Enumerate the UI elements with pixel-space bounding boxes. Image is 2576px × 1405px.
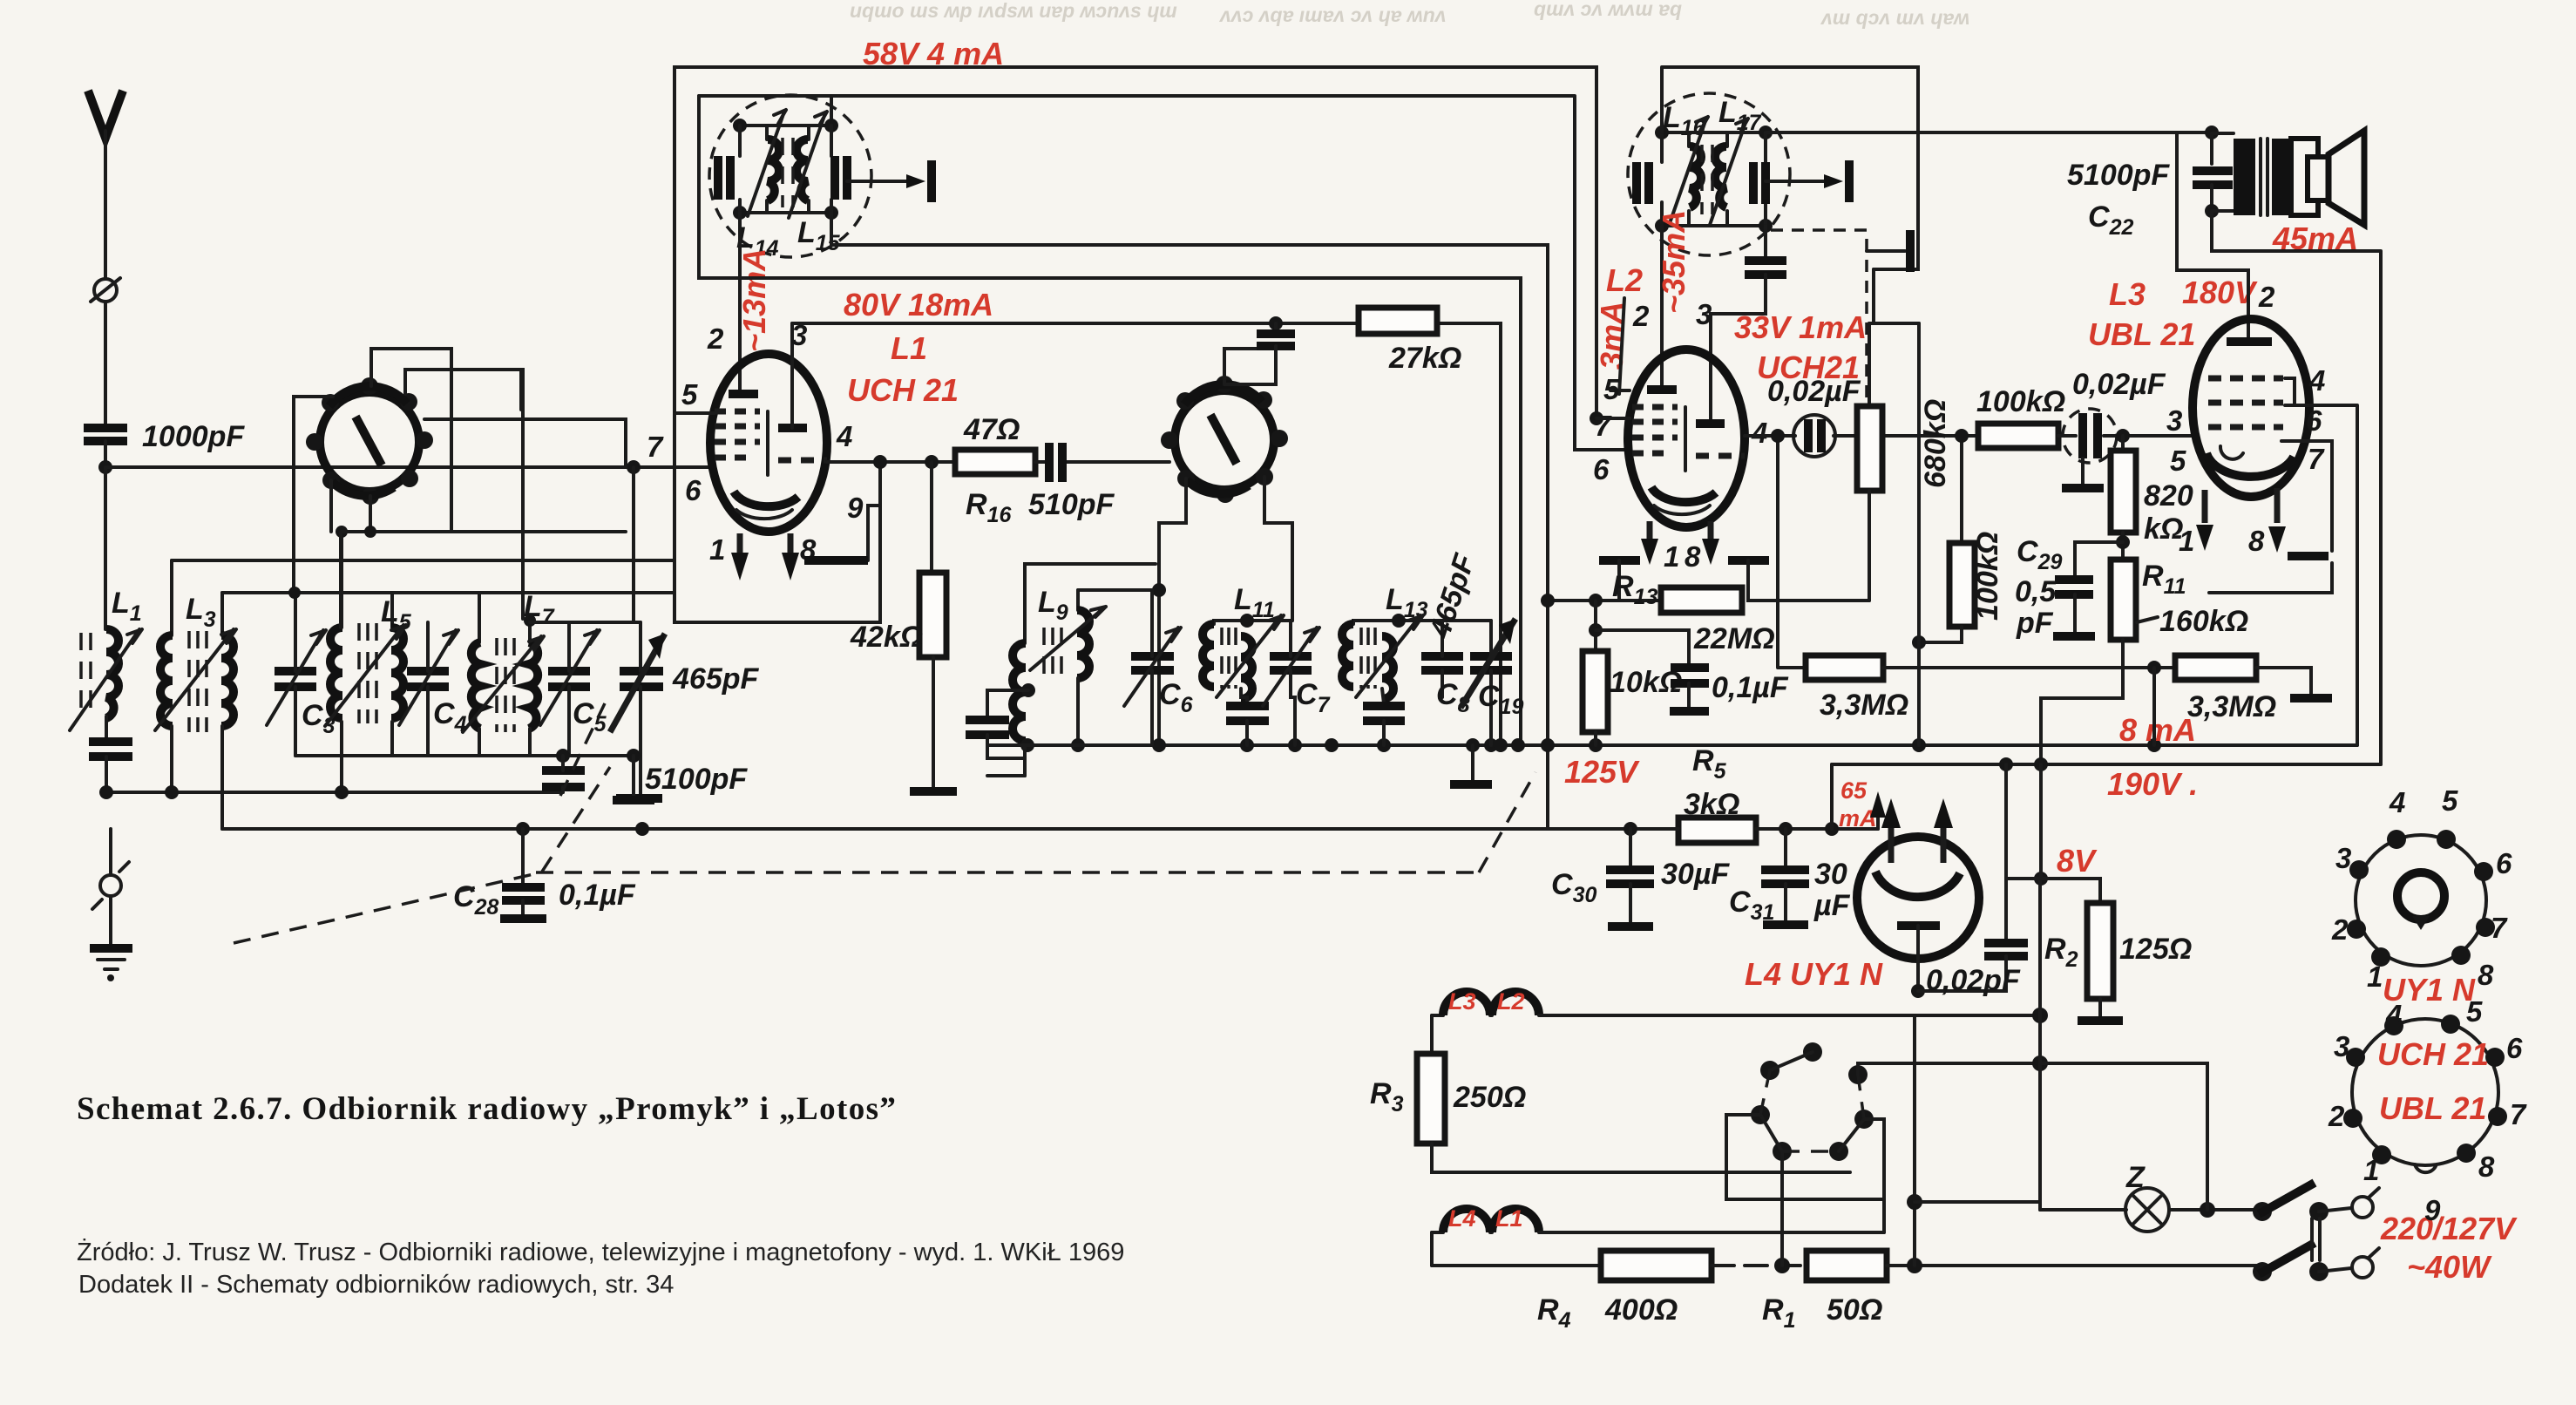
pin labels tube L3: [2166, 364, 2325, 557]
capacitor C29 0,5pF: [2015, 535, 2123, 640]
svg-text:ʌɯ qɔʌ ɯʌ ɥɐʍ: ʌɯ qɔʌ ɯʌ ɥɐʍ: [1820, 6, 1969, 29]
svg-text:42kΩ: 42kΩ: [850, 621, 923, 654]
svg-text:30µF: 30µF: [1661, 858, 1730, 891]
capacitor 0,02pF at rectifier: [1918, 764, 2028, 997]
capacitor C8: [1421, 621, 1470, 717]
svg-text:4: 4: [2308, 364, 2325, 397]
resistor R11 160k: [2041, 560, 2248, 764]
svg-text:Żródło: J. Trusz W. Trusz - Od: Żródło: J. Trusz W. Trusz - Odbiorniki r…: [77, 1238, 1124, 1266]
svg-text:kΩ: kΩ: [2144, 512, 2183, 546]
svg-text:Schemat 2.6.7. Odbiornik radio: Schemat 2.6.7. Odbiornik radiowy „Promyk…: [77, 1091, 897, 1127]
svg-text:L3: L3: [2109, 276, 2146, 312]
resistor R1 50ohm: [1762, 1251, 2259, 1333]
svg-text:7: 7: [2491, 912, 2508, 944]
box around L16 assembly: [1662, 67, 1918, 269]
socket diagram UY1N: [2331, 784, 2512, 1008]
antenna terminal: [91, 278, 120, 424]
capacitor C3: [267, 593, 336, 756]
svg-text:UBL 21: UBL 21: [2379, 1090, 2486, 1126]
tuning circle 1 (band switch): [306, 377, 433, 505]
resistor R16 47ohm: [955, 413, 1035, 527]
heater winding L3/L2: [1432, 988, 2040, 1015]
svg-text:3,3MΩ: 3,3MΩ: [2187, 690, 2276, 723]
wire plate pin 2 of L3: [2177, 133, 2248, 340]
svg-text:8: 8: [2478, 1150, 2495, 1183]
pilot lamp Z: [2040, 1063, 2259, 1232]
svg-text:0,1µF: 0,1µF: [559, 879, 636, 912]
tube L1 UCH21: [675, 323, 827, 532]
svg-text:4: 4: [2389, 786, 2405, 818]
svg-text:1: 1: [2179, 525, 2194, 557]
svg-text:4: 4: [2385, 999, 2402, 1031]
svg-text:30: 30: [1814, 858, 1847, 891]
wires tuning circle 1 to coils: [288, 349, 626, 628]
resistor 100k (vertical): [1912, 323, 2004, 745]
resistor R4 400ohm: [1432, 1251, 1807, 1333]
svg-text:5: 5: [2466, 995, 2483, 1028]
capacitor C7: [1263, 621, 1331, 745]
dashed gang line: [234, 703, 1535, 943]
svg-text:27kΩ: 27kΩ: [1388, 342, 1461, 375]
svg-text:2: 2: [2258, 281, 2275, 313]
svg-text:125Ω: 125Ω: [2119, 933, 2192, 966]
resistor 3,3M (first): [1778, 436, 2175, 722]
svg-text:100kΩ: 100kΩ: [1976, 385, 2065, 418]
svg-text:0,02µF: 0,02µF: [1767, 375, 1861, 408]
wire 45mA line: [2212, 211, 2381, 764]
wire antenna to L1 coil: [104, 467, 107, 629]
capacitor C28: [453, 829, 636, 920]
capacitor under L1: [89, 742, 132, 792]
capacitor 1000pF: [84, 420, 245, 467]
svg-text:1: 1: [2367, 960, 2383, 993]
svg-text:4: 4: [1751, 417, 1767, 449]
wire L7/C5/465 top link: [530, 467, 641, 622]
ground symbol: [90, 948, 132, 981]
inductor L3: [155, 560, 236, 829]
svg-text:33V 1mA: 33V 1mA: [1734, 309, 1867, 345]
svg-text:5100pF: 5100pF: [645, 763, 748, 796]
svg-text:pF: pF: [2016, 607, 2054, 640]
earth terminal: [92, 829, 129, 947]
wire L14 secondary to tube grid pin2: [738, 213, 742, 394]
svg-text:5: 5: [681, 378, 698, 411]
wire top of L16 to speaker line: [1766, 131, 2212, 134]
svg-text:5100pF: 5100pF: [2067, 159, 2170, 192]
svg-text:2: 2: [2328, 1100, 2345, 1132]
svg-text:~40W: ~40W: [2407, 1249, 2492, 1285]
red 8V and resistor R2: [2034, 764, 2192, 1021]
capacitor C5: [540, 622, 607, 756]
svg-text:4: 4: [836, 420, 852, 452]
inductor L1: [70, 587, 142, 738]
svg-text:400Ω: 400Ω: [1604, 1293, 1678, 1327]
capacitor 5100pF: [542, 756, 748, 796]
ground stub right of 5100pF: [613, 756, 654, 800]
svg-text:7: 7: [2510, 1098, 2527, 1130]
svg-text:190V .: 190V .: [2107, 766, 2198, 802]
svg-text:8: 8: [1685, 540, 1701, 573]
svg-text:3: 3: [1696, 298, 1712, 330]
svg-text:1: 1: [709, 533, 725, 566]
svg-text:9: 9: [847, 492, 864, 524]
svg-text:0,02µF: 0,02µF: [2072, 368, 2166, 401]
pin 6 wire to 8mA line: [2285, 405, 2357, 745]
vertical feeds right of switch: [1907, 879, 2048, 1266]
svg-text:~13mA: ~13mA: [736, 248, 772, 352]
svg-text:47Ω: 47Ω: [963, 413, 1020, 446]
wire L3 top links: [172, 560, 673, 593]
svg-text:L4 UY1 N: L4 UY1 N: [1745, 956, 1883, 992]
inductor L11: [1203, 583, 1292, 745]
svg-text:3: 3: [2335, 842, 2351, 874]
inductor L7: [463, 590, 555, 756]
svg-text:8V: 8V: [2057, 843, 2098, 879]
svg-text:6: 6: [2496, 847, 2512, 879]
svg-text:L2: L2: [1606, 262, 1643, 298]
svg-text:680kΩ: 680kΩ: [1919, 399, 1952, 488]
IF transformer L16/L17 dashed circle: [1628, 93, 1790, 255]
wire 58V top line: [675, 67, 1596, 438]
trimmer capacitor in circle (to 680k): [1745, 375, 1978, 457]
svg-text:6: 6: [685, 474, 702, 506]
svg-text:220/127V: 220/127V: [2380, 1211, 2518, 1246]
wire 5100pF row: [295, 749, 641, 763]
wire second top line: [699, 96, 1630, 450]
svg-text:L3: L3: [1448, 988, 1476, 1015]
voltage selector switch: [1726, 1042, 2040, 1266]
loudspeaker: [2308, 131, 2364, 225]
svg-text:465pF: 465pF: [672, 662, 759, 696]
tuning circle 2 (hexode mixer view): [1161, 376, 1288, 503]
bus ground (lower): [222, 822, 1630, 836]
svg-text:6: 6: [1593, 453, 1610, 485]
resistor 42k: [850, 462, 957, 791]
svg-text:8: 8: [2248, 525, 2265, 557]
grid-cap terminal of L15: [847, 160, 932, 202]
pin labels tube L1: [647, 319, 864, 566]
svg-text:3: 3: [2166, 404, 2182, 437]
heater winding L4/L1: [1432, 1205, 1884, 1266]
red 65 mA with arrow: [1839, 777, 1886, 831]
svg-text:3: 3: [2334, 1030, 2349, 1062]
pin7 junction: [1590, 411, 1603, 425]
svg-text:5: 5: [2170, 445, 2186, 477]
svg-text:160kΩ: 160kΩ: [2159, 605, 2248, 638]
svg-text:22MΩ: 22MΩ: [1693, 622, 1775, 655]
socket diagram UCH21/UBL21: [2328, 995, 2527, 1226]
svg-text:820: 820: [2144, 479, 2193, 512]
svg-text:uqɯo ɯs ʍp ıʌdsʍ uɐp ʍɔnʌs ɥɯ: uqɯo ɯs ʍp ıʌdsʍ uɐp ʍɔnʌs ɥɯ: [850, 0, 1177, 22]
wire to grid pin 7: [105, 465, 710, 469]
pin 4 stub: [2285, 378, 2295, 405]
svg-text:UCH 21: UCH 21: [847, 372, 959, 408]
grid terminal of L17: [1766, 160, 1849, 202]
svg-text:L4: L4: [1448, 1205, 1476, 1232]
svg-text:L1: L1: [1495, 1205, 1523, 1232]
IF transformer L14/L15 dashed circle: [709, 95, 871, 261]
bus AVC (upper): [99, 785, 563, 799]
svg-text:1000pF: 1000pF: [142, 420, 245, 453]
svg-text:100kΩ: 100kΩ: [1971, 532, 2004, 621]
svg-text:0,02pF: 0,02pF: [1926, 964, 2021, 997]
red 27k line (80V feed): [792, 323, 1501, 745]
svg-text:UBL 21: UBL 21: [2088, 316, 2195, 352]
rectifier tube L4 UY1N: [1745, 798, 1979, 998]
svg-text:qɯʌ ɔʌ ʍʌɯ ɐq: qɯʌ ɔʌ ʍʌɯ ɐq: [1534, 0, 1682, 20]
capacitor 0,1uF (AVC): [1596, 630, 1789, 711]
svg-text:L1: L1: [891, 330, 927, 366]
capacitor C30 30uF: [1551, 829, 1730, 926]
svg-text:1: 1: [2363, 1154, 2379, 1186]
svg-text:0,1µF: 0,1µF: [1712, 671, 1789, 704]
IF block: inductor L9: [966, 564, 1166, 776]
wire 33V line: [1869, 269, 1919, 323]
svg-text:Dodatek II - Schematy odbiorni: Dodatek II - Schematy odbiorników radiow…: [78, 1271, 674, 1299]
svg-text:7: 7: [647, 431, 664, 463]
capacitor below L17: [1711, 226, 1786, 424]
antenna: [88, 91, 123, 279]
pin 7 wire and cathode: [2196, 441, 2332, 593]
svg-text:ʌʌɔ ʌqɐ ıɯɐʌ ɔʌ ɥɐ ʍnʌ: ʌʌɔ ʌqɐ ıɯɐʌ ɔʌ ɥɐ ʍnʌ: [1218, 3, 1447, 26]
resistor R5 3k: [1624, 744, 1878, 843]
resistor 820k: [2111, 436, 2193, 560]
svg-text:µF: µF: [1813, 889, 1851, 922]
tube L2 UCH21: [1628, 350, 1745, 527]
resistor 680k: [1857, 323, 1952, 601]
resistor R13: [1541, 570, 1775, 655]
node antenna junction: [98, 460, 112, 474]
svg-text:1: 1: [1664, 540, 1679, 573]
svg-text:58V 4 mA: 58V 4 mA: [863, 36, 1004, 71]
svg-text:2: 2: [1632, 300, 1650, 332]
cathode box under tube L1: [675, 438, 880, 622]
svg-text:5: 5: [1603, 373, 1620, 405]
cathode leads tube L2: [1599, 521, 1869, 601]
svg-text:510pF: 510pF: [1028, 488, 1115, 521]
resistor 100k (horizontal): [1976, 385, 2065, 448]
svg-text:9: 9: [2424, 1194, 2441, 1226]
inductor L13: [1342, 583, 1491, 745]
svg-text:0,5: 0,5: [2015, 575, 2057, 608]
resistor 27k: [1359, 308, 1461, 375]
svg-text:250Ω: 250Ω: [1453, 1081, 1526, 1114]
variable capacitor 465pF (gang): [610, 622, 759, 798]
svg-text:65: 65: [1840, 777, 1868, 804]
wires around circle 2: [699, 213, 1630, 829]
svg-text:125V: 125V: [1564, 754, 1640, 790]
svg-text:7: 7: [2308, 443, 2325, 475]
svg-text:6: 6: [2506, 1032, 2523, 1064]
wire L16 secondary down to pin2: [1660, 226, 1664, 390]
inductor L5: [325, 526, 412, 792]
capacitor 510pF: [1028, 443, 1169, 521]
resistor R3 250ohm: [1370, 1015, 1850, 1172]
grid capacitor below 27k line: [1224, 323, 1295, 384]
svg-text:UCH 21: UCH 21: [2377, 1036, 2489, 1072]
resistor 10k: [1583, 601, 1682, 745]
svg-text:mA: mA: [1839, 805, 1877, 831]
main bus (8mA line): [987, 745, 2357, 776]
svg-text:80V 18mA: 80V 18mA: [844, 287, 993, 322]
190V line: [1832, 763, 2381, 766]
svg-text:6: 6: [2306, 404, 2322, 437]
box around L14 assembly: [699, 96, 831, 278]
resistor 3,3M (second): [2154, 655, 2332, 745]
plate line of L1: [827, 460, 955, 464]
coupling capacitor 0,02uF in dashed circle: [2058, 368, 2193, 488]
vertical from R5 output up to 190V line: [1830, 764, 1834, 829]
tube L3 UBL21: [2193, 319, 2309, 497]
dashed AVC feedback path: [1771, 230, 1910, 453]
svg-text:5: 5: [2442, 784, 2458, 817]
svg-text:L2: L2: [1497, 988, 1525, 1015]
capacitor C22 5100pF: [2067, 126, 2233, 240]
mains switch: [2253, 1183, 2379, 1281]
svg-text:50Ω: 50Ω: [1827, 1293, 1882, 1327]
svg-text:8 mA: 8 mA: [2119, 712, 2196, 748]
svg-text:~35mA: ~35mA: [1656, 210, 1691, 314]
capacitor C31 30uF: [1729, 829, 1851, 925]
svg-text:2: 2: [2331, 913, 2349, 946]
capacitor C4: [399, 622, 467, 756]
svg-text:2: 2: [707, 322, 724, 355]
variable capacitor C19 465pF: [1423, 549, 1523, 784]
svg-text:8: 8: [2478, 959, 2494, 991]
faint scan bleed-through artifacts: [850, 0, 1969, 29]
capacitor C6: [1124, 590, 1194, 745]
svg-text:3,3MΩ: 3,3MΩ: [1820, 689, 1908, 722]
output transformer: [2212, 133, 2318, 215]
pin labels tube L2: [1593, 298, 1767, 573]
